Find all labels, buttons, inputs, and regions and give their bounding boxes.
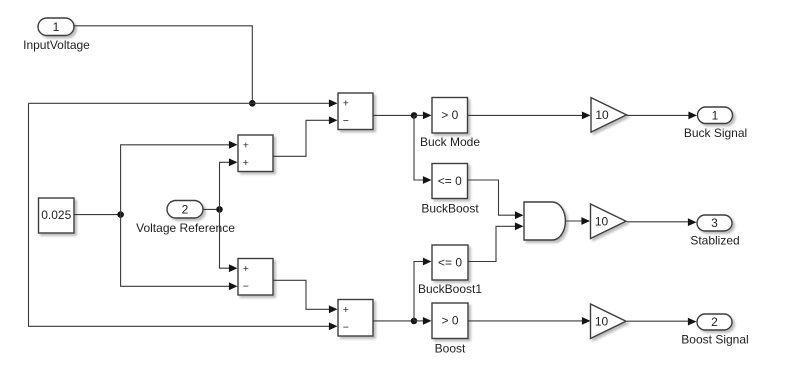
sum block Sum4 plus minus [338,300,373,337]
svg-text:−: − [243,281,249,293]
svg-text:+: + [243,263,249,275]
wire node E to Boost input [414,317,432,325]
svg-text:10: 10 [595,108,609,122]
sum block Sum2 plus minus [338,93,373,130]
gain Gain1 value 10 [591,98,627,133]
gain Gain3 value 10 [591,304,627,339]
outport 1 Buck Signal [684,107,747,140]
wire node B to Sum3 minus input [121,215,238,291]
svg-text:2: 2 [182,202,189,216]
relational operator Buck Mode [420,98,480,150]
wire node E to BuckBoost1 input [414,258,432,321]
svg-text:InputVoltage: InputVoltage [23,38,90,52]
wire Sum2 output to node D [373,114,414,116]
wire node C to Sum3 plus input [220,209,238,272]
sum block Sum1 plus plus [238,135,273,172]
svg-text:1: 1 [53,20,60,34]
svg-text:+: + [243,157,249,169]
svg-text:<= 0: <= 0 [438,174,462,188]
svg-text:Voltage Reference: Voltage Reference [136,221,235,235]
svg-text:Buck Mode: Buck Mode [420,135,480,149]
outport 3 Stablized [690,215,739,247]
wire left branch to Sum4 minus input [29,103,338,330]
gain Gain2 value 10 [591,204,627,239]
wire constant to node B [74,214,121,216]
svg-text:Boost: Boost [435,342,466,356]
wire Gain3 to outport Boost Signal [627,318,697,326]
svg-text:1: 1 [712,108,719,122]
wire Gain1 to outport Buck Signal [627,112,698,120]
sum block Sum3 plus minus [238,259,273,296]
svg-text:BuckBoost: BuckBoost [421,202,479,216]
inport 1 InputVoltage [23,18,90,52]
wire BuckBoost1 output to AND gate input 2 [468,222,524,261]
inport 2 Voltage Reference [136,201,235,235]
node B constant junction [117,211,124,218]
svg-text:+: + [243,140,249,152]
wire node D to BuckBoost input [414,115,432,183]
wire Sum1 output to Sum2 minus input [273,116,338,156]
svg-text:> 0: > 0 [441,108,458,122]
wire AND gate output to Gain2 [565,217,590,225]
svg-text:BuckBoost1: BuckBoost1 [418,282,482,296]
node C Voltage Reference junction [216,206,223,213]
relational operator BuckBoost [421,164,479,216]
relational operator Boost [432,303,468,356]
svg-text:0.025: 0.025 [41,208,71,222]
svg-text:Boost Signal: Boost Signal [681,333,748,347]
wire node A to Sum2 plus input [29,99,338,107]
wire Boost output to Gain3 [468,317,591,325]
svg-text:+: + [343,304,349,316]
wire Gain2 to outport Stablized [627,218,697,226]
wire node B to Sum1 first plus input [121,141,238,215]
outport 2 Boost Signal [681,314,748,347]
svg-text:10: 10 [595,315,609,329]
constant 0.025 [39,198,75,233]
logical operator AND gate [524,202,565,240]
wire Sum4 output to node E [373,320,414,322]
wire node C to Sum1 second plus input [220,158,238,209]
wire Buck Mode output to Gain1 [468,112,591,120]
svg-text:2: 2 [711,315,718,329]
svg-text:> 0: > 0 [441,314,458,328]
svg-text:3: 3 [711,216,718,230]
node A InputVoltage junction [249,100,256,107]
wire node D to Buck Mode input [414,112,432,120]
svg-text:<= 0: <= 0 [438,256,462,270]
wire InputVoltage to node A [74,26,252,104]
node D Sum2 output junction [411,112,418,119]
svg-text:−: − [343,115,349,127]
node E Sum4 output junction [411,318,418,325]
relational operator BuckBoost1 [418,245,482,296]
svg-text:Buck Signal: Buck Signal [684,126,747,140]
wire BuckBoost output to AND gate input 1 [468,180,524,219]
svg-text:Stablized: Stablized [690,233,739,247]
svg-text:+: + [343,98,349,110]
svg-text:−: − [343,322,349,334]
svg-text:10: 10 [595,215,609,229]
wire Voltage Reference to node C [203,208,220,210]
wire Sum3 output to Sum4 plus input [273,280,338,313]
